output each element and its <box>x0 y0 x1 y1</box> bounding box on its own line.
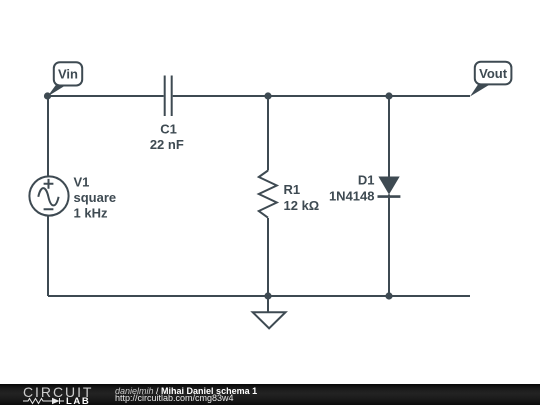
svg-text:22 nF: 22 nF <box>150 137 184 152</box>
svg-text:12 kΩ: 12 kΩ <box>284 198 320 213</box>
svg-text:D1: D1 <box>358 173 375 188</box>
svg-text:Vin: Vin <box>58 66 78 81</box>
svg-text:1N4148: 1N4148 <box>329 188 375 203</box>
svg-text:C1: C1 <box>160 121 177 136</box>
svg-text:1 kHz: 1 kHz <box>74 205 108 220</box>
svg-text:square: square <box>74 190 117 205</box>
svg-text:V1: V1 <box>74 174 90 189</box>
svg-text:Vout: Vout <box>479 66 508 81</box>
svg-text:R1: R1 <box>284 182 301 197</box>
